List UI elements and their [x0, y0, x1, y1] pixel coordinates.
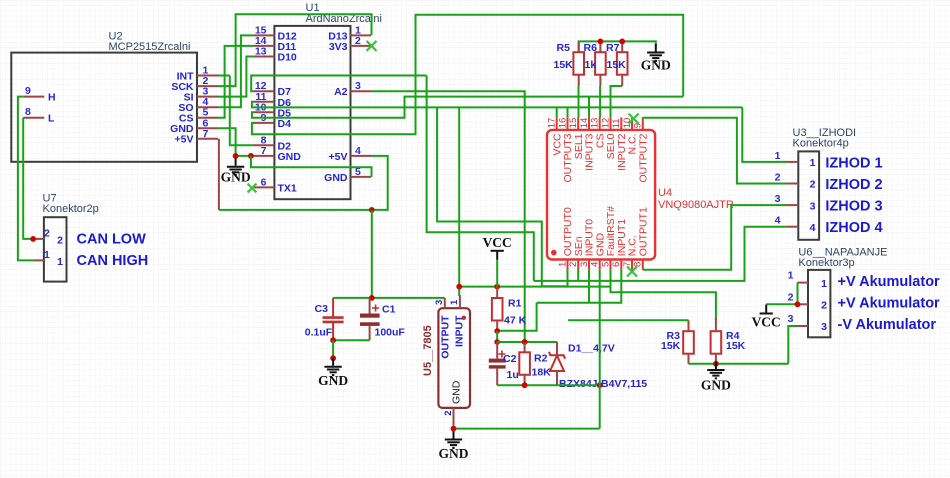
- junction C3 bottom: [330, 337, 336, 343]
- U1 pin 7 GND: [254, 155, 274, 157]
- svg-text:3: 3: [788, 313, 794, 325]
- wire net INT vertical to D2: [230, 76, 254, 146]
- svg-text:R7: R7: [606, 42, 620, 54]
- U1 pin 4 +5V: [351, 155, 372, 157]
- IC U1 ArdNanoZrcalni box: [274, 26, 350, 199]
- svg-text:16: 16: [557, 118, 568, 129]
- svg-text:4: 4: [810, 222, 816, 234]
- svg-text:CAN LOW: CAN LOW: [77, 232, 147, 248]
- U4 top pin 12 SEL0: [610, 117, 612, 129]
- svg-text:+V Akumulator: +V Akumulator: [838, 274, 941, 290]
- svg-text:12: 12: [600, 118, 611, 129]
- wire net C3 down to gnd: [332, 340, 334, 358]
- junction VIN at U5 input: [456, 284, 462, 290]
- svg-text:15K: 15K: [661, 340, 681, 352]
- U4 top pin 17 VCC: [556, 117, 558, 129]
- svg-text:17: 17: [547, 118, 558, 129]
- svg-text:47 K: 47 K: [504, 315, 527, 327]
- svg-text:13: 13: [590, 118, 601, 129]
- junction GND branch: [248, 153, 254, 159]
- U2 pin 3 SI: [197, 96, 218, 98]
- svg-text:2: 2: [568, 262, 579, 267]
- wire net CANL from U2.L to U7.2: [23, 118, 34, 239]
- wire net R tops to GND: [579, 41, 656, 52]
- IC U5 7805 regulator box: [438, 308, 470, 408]
- resistor R1 47K: [496, 287, 498, 298]
- wire R5 bottom lead: [578, 75, 580, 86]
- U1 pin 5 GND: [351, 176, 372, 178]
- wire net OUTPUT2 to U3 pin1 upper: [643, 117, 787, 183]
- IC U2 MCP2515Zrcalni box: [11, 53, 197, 162]
- svg-text:14: 14: [579, 118, 590, 129]
- wire net +5V down to C1 row: [371, 210, 373, 298]
- svg-text:CAN HIGH: CAN HIGH: [77, 253, 149, 269]
- svg-text:BZX84J-B4V7,115: BZX84J-B4V7,115: [559, 378, 647, 390]
- svg-text:-V Akumulator: -V Akumulator: [838, 317, 937, 333]
- svg-text:10: 10: [622, 118, 633, 129]
- connector U3 Konektor4p box: [798, 151, 819, 239]
- wire net R1 bottom to divider node: [496, 331, 498, 342]
- wire net +5V loop from U1 pin4: [371, 156, 388, 210]
- svg-text:GND: GND: [278, 151, 302, 163]
- wire net VIN stub to U5 input: [458, 287, 460, 296]
- wire net row107 branch V459 to VCC rail: [458, 107, 460, 286]
- resistor R3 15K: [683, 331, 694, 354]
- svg-text:2: 2: [355, 35, 361, 47]
- svg-text:6: 6: [611, 262, 622, 267]
- U1 pin 15 D12: [254, 34, 274, 36]
- svg-text:15K: 15K: [607, 59, 627, 71]
- svg-text:U4: U4: [658, 187, 672, 199]
- wire net VCC symbol stem: [496, 260, 498, 287]
- svg-text:2: 2: [788, 291, 794, 303]
- no-connect X on U1 TX1: [248, 184, 257, 193]
- wire net GND stub U5: [453, 425, 455, 429]
- resistor R4 15K: [711, 331, 722, 354]
- U1 pin 12 D7: [254, 90, 274, 92]
- wire net C3 C1 bottoms: [333, 339, 370, 341]
- ground symbol bottom center: [445, 431, 462, 448]
- U3 pin 3: [787, 204, 799, 206]
- U2 pin 4 SO: [197, 106, 218, 108]
- svg-text:R6: R6: [584, 42, 598, 54]
- connector U7 Konektor2p box: [44, 217, 67, 281]
- svg-text:1k: 1k: [585, 59, 597, 71]
- svg-text:1: 1: [557, 262, 568, 267]
- svg-text:GND: GND: [439, 446, 469, 461]
- svg-text:2: 2: [821, 300, 827, 312]
- U4 bottom pin 1 OUTPUT0: [567, 260, 569, 270]
- svg-text:GND: GND: [221, 170, 251, 185]
- IC U4 VNQ9080AJTR box: [547, 130, 655, 260]
- U2 pin 6 GND: [197, 127, 218, 129]
- no-connect X on U1 3V3: [367, 41, 377, 51]
- wire R4 bottom lead: [715, 354, 717, 364]
- wire net GND branch through box to U1 pin5 GND: [251, 156, 372, 177]
- ground symbol near R5R6R7: [647, 44, 664, 61]
- junction VCC at R1: [494, 284, 500, 290]
- U2 pin 7 +5V: [197, 138, 218, 140]
- svg-text:3: 3: [821, 321, 827, 333]
- U4 bottom pin 6 INPUT1: [620, 260, 622, 270]
- svg-text:OUTPUT2: OUTPUT2: [637, 133, 649, 182]
- wire net U6 pin1 branch: [797, 283, 799, 305]
- svg-text:C2: C2: [503, 353, 517, 365]
- svg-text:2: 2: [775, 172, 781, 184]
- U4 top pin 14 INPUT3: [588, 117, 590, 129]
- U4 bottom pin 5 FaultRST#: [610, 260, 612, 270]
- svg-text:7: 7: [261, 145, 267, 157]
- svg-text:4: 4: [590, 262, 601, 267]
- svg-text:OUTPUT: OUTPUT: [439, 315, 451, 359]
- svg-text:OUTPUT1: OUTPUT1: [637, 207, 649, 256]
- wire net GND bottom rail: [454, 428, 600, 430]
- resistor R1 body: [492, 298, 503, 321]
- wire net D4 long loop over top rail: [252, 15, 683, 135]
- junction GND at U5 pin2: [451, 426, 457, 432]
- svg-text:3: 3: [355, 80, 361, 92]
- wire net CANH from U2.H to U7.1: [18, 97, 35, 261]
- wire net R6 to U4 pin13: [599, 86, 601, 117]
- svg-text:1: 1: [44, 249, 50, 261]
- no-connect X on U4 pin7: [627, 267, 637, 277]
- wire net row107 end down to U3 pin1: [742, 107, 786, 161]
- svg-text:5: 5: [600, 262, 611, 267]
- wire net D5 jog: [252, 97, 683, 118]
- wire net -V to GND rail: [788, 326, 797, 364]
- wire net H2 branch down V426: [427, 76, 534, 281]
- wire net FaultRST to R4: [611, 270, 716, 320]
- U1 pin 11 D6: [254, 101, 274, 103]
- wire net D7 jog up and across to V426: [251, 76, 426, 92]
- ground symbol near C3: [324, 358, 341, 375]
- svg-text:GND: GND: [641, 58, 671, 73]
- U4 pin1 marker dot: [551, 250, 557, 256]
- wire R7 bottom lead: [621, 75, 623, 86]
- wire net +5V red drop from U2 pin7: [218, 139, 220, 210]
- wire net row107 branch V437 to SEn region: [437, 107, 567, 286]
- wire net GND from U2.GND down: [218, 128, 236, 156]
- U4 bottom pin 4 GND: [599, 260, 601, 270]
- U4 top pin 13 CS: [599, 117, 601, 129]
- U3 pin 4: [787, 226, 799, 228]
- wire R6 top lead: [599, 41, 601, 52]
- wire net OUTPUT1 to U3 pin3: [643, 205, 787, 270]
- U3 pin 2: [787, 183, 799, 185]
- U3 pin 1: [787, 161, 799, 163]
- svg-text:8: 8: [25, 106, 31, 118]
- svg-text:IZHOD 4: IZHOD 4: [825, 220, 882, 236]
- ground symbol near R3R4: [707, 362, 724, 379]
- svg-text:3V3: 3V3: [329, 41, 348, 53]
- U1 pin 2 3V3: [351, 45, 372, 47]
- wire net SCK from U2.SCK up over to U1.D13: [218, 14, 372, 86]
- junction R1 bottom row330: [494, 328, 500, 334]
- U5 pin1 marker dot: [462, 316, 466, 320]
- svg-text:3: 3: [775, 193, 781, 205]
- svg-text:7: 7: [203, 128, 209, 140]
- wire R5 top lead: [578, 41, 580, 52]
- svg-text:C1: C1: [382, 304, 396, 316]
- U2 pin 1 INT: [197, 75, 218, 77]
- U1 pin 14 D11: [254, 45, 274, 47]
- junction R2 top: [522, 339, 528, 345]
- U1 pin 3 A2: [351, 90, 372, 92]
- wire R6 bottom lead: [599, 75, 601, 86]
- U7 pin 1: [35, 259, 44, 261]
- U4 top pin 15 SEL1: [577, 117, 579, 129]
- svg-text:MCP2515Zrcalni: MCP2515Zrcalni: [109, 41, 191, 53]
- wire net SEn row to U3 pin4: [534, 227, 787, 281]
- svg-text:2: 2: [44, 228, 50, 240]
- svg-text:D1__4,7V: D1__4,7V: [568, 343, 615, 355]
- power symbol VCC above R1: [491, 251, 504, 260]
- svg-text:R2: R2: [534, 353, 548, 365]
- wire net VCC rail: [459, 286, 610, 288]
- wire net SI from U2.SI to U1.D10: [218, 57, 254, 97]
- wire R4 top lead: [715, 318, 717, 331]
- wire net GND row R3R4 to U6: [689, 363, 789, 365]
- junction at gnd stem C3: [330, 355, 336, 361]
- svg-text:R1: R1: [508, 298, 522, 310]
- svg-text:L: L: [48, 113, 55, 125]
- resistor R5 15K: [573, 52, 584, 74]
- svg-text:+5V: +5V: [329, 151, 348, 163]
- svg-text:1: 1: [449, 299, 460, 305]
- junction R2 bottom: [522, 382, 528, 388]
- svg-text:Konektor2p: Konektor2p: [43, 203, 99, 215]
- power symbol VCC at U6: [760, 305, 773, 314]
- U1 pin 6 TX1: [254, 186, 274, 188]
- wire net R7 to U4 pin12: [611, 86, 623, 117]
- wire net row107 stub to U4 pin17: [556, 107, 558, 117]
- U4 bottom pin 3 INPUT0: [588, 260, 590, 270]
- wire net D6 jog to row107: [252, 102, 742, 108]
- junction divider node: [494, 339, 500, 345]
- wire net CS from U2.CS to U1.D11: [218, 46, 254, 118]
- svg-text:2: 2: [810, 179, 816, 191]
- svg-text:D4: D4: [278, 118, 292, 130]
- capacitor C3 0.1uF: [332, 298, 334, 317]
- wire net R3 top row: [568, 319, 688, 321]
- svg-text:U5__7805: U5__7805: [422, 325, 434, 376]
- U4 bottom pin 2 SEn: [577, 260, 579, 270]
- U1 pin 1 D13: [351, 34, 372, 36]
- U1 pin 9 D4: [254, 122, 274, 124]
- R2 bottom lead: [524, 374, 526, 386]
- svg-text:VNQ9080AJTR: VNQ9080AJTR: [658, 199, 734, 211]
- svg-text:GND: GND: [701, 378, 731, 393]
- svg-text:R5: R5: [557, 42, 571, 54]
- U5 pin 3 OUTPUT: [444, 298, 446, 308]
- svg-text:18K: 18K: [532, 367, 552, 379]
- svg-text:IZHOD 3: IZHOD 3: [825, 199, 882, 215]
- wire net SO from U2.SO to U1.D12: [218, 35, 254, 107]
- wire net D5 branch down to U4 pin14: [588, 97, 590, 118]
- svg-text:Konektor4p: Konektor4p: [793, 137, 849, 149]
- U2 pin 8 L: [23, 117, 44, 119]
- svg-text:15: 15: [568, 118, 579, 129]
- U6 pin 1: [798, 282, 809, 284]
- U1 pin 13 D10: [254, 56, 274, 58]
- svg-text:+V Akumulator: +V Akumulator: [838, 296, 941, 312]
- U2 pin 9 H: [23, 96, 44, 98]
- svg-text:1: 1: [57, 256, 63, 268]
- wire net INT from U2.INT: [218, 75, 230, 77]
- svg-text:1u: 1u: [507, 369, 519, 381]
- svg-text:C3: C3: [315, 303, 329, 315]
- svg-text:8: 8: [633, 262, 644, 267]
- capacitor C2 1u polarized: [496, 342, 498, 359]
- resistor R2 body: [519, 352, 530, 375]
- wire R3 bottom lead: [688, 354, 690, 364]
- U1 pin 10 D5: [254, 111, 274, 113]
- U4 top pin 9 OUTPUT2: [642, 117, 644, 129]
- junction GND at symbol: [233, 153, 239, 159]
- junction R7 top: [619, 39, 625, 45]
- svg-text:11: 11: [611, 118, 622, 128]
- svg-text:Konektor3p: Konektor3p: [798, 257, 854, 269]
- svg-text:3: 3: [810, 200, 816, 212]
- svg-text:4: 4: [355, 145, 361, 157]
- ground symbol near U2: [227, 158, 244, 175]
- wire net R3 top lead: [688, 320, 690, 331]
- junction C1 top: [369, 295, 375, 301]
- svg-text:3: 3: [434, 300, 445, 305]
- junction GND at R4: [713, 361, 719, 367]
- svg-text:A2: A2: [334, 86, 348, 98]
- svg-text:IZHOD 1: IZHOD 1: [825, 155, 882, 171]
- wire net divider bottom row: [497, 384, 600, 386]
- wire net U4 GND pin4 long drop: [599, 270, 601, 429]
- svg-text:2: 2: [443, 411, 454, 416]
- U4 top pin 16 OUTPUT3: [567, 117, 569, 129]
- wire net A2 to divider: [371, 91, 525, 342]
- svg-text:VCC: VCC: [483, 235, 512, 250]
- svg-text:2: 2: [57, 234, 63, 246]
- resistor R7 15K: [617, 52, 628, 74]
- R1 bottom lead: [496, 321, 498, 332]
- svg-text:GND: GND: [324, 172, 348, 184]
- svg-text:6: 6: [261, 176, 267, 188]
- svg-text:9: 9: [25, 85, 31, 97]
- wire net VIN row C3 C1 U5: [333, 297, 445, 299]
- wire net +5V horizontal to junction: [219, 209, 372, 211]
- svg-text:3: 3: [579, 262, 590, 267]
- svg-text:IZHOD 2: IZHOD 2: [825, 177, 882, 193]
- junction R6 top: [598, 39, 604, 45]
- junction CANL at U7 pin2: [30, 236, 36, 242]
- wire net SEn stub up to U4 pin2: [577, 270, 579, 281]
- svg-text:1: 1: [810, 157, 816, 169]
- svg-text:VCC: VCC: [752, 315, 781, 330]
- wire net GND row to U1.GND: [236, 155, 254, 157]
- junction bottom row at GND drop: [597, 382, 603, 388]
- U2 pin 2 SCK: [197, 85, 218, 87]
- junction U6 pin2: [795, 301, 801, 307]
- svg-text:4: 4: [775, 215, 781, 227]
- svg-text:D10: D10: [278, 52, 297, 64]
- connector U6 Konektor3p box: [808, 270, 830, 337]
- U4 top pin 11 INPUT2: [620, 117, 622, 129]
- U2 pin 5 CS: [197, 117, 218, 119]
- zener diode D1 BZX84: [556, 342, 558, 356]
- wire net VCC to U6 pin2 and pin1: [766, 303, 797, 305]
- svg-text:1: 1: [775, 150, 781, 162]
- svg-text:TX1: TX1: [278, 182, 297, 194]
- wire net INPUT0 stub: [588, 270, 590, 303]
- svg-text:GND: GND: [451, 380, 463, 404]
- resistor R6 1k: [595, 52, 606, 74]
- U6 pin 3: [798, 325, 809, 327]
- U5 pin 2 GND: [453, 408, 455, 426]
- wire R7 top lead: [621, 41, 623, 52]
- capacitor C1 100uF polarized: [369, 298, 371, 314]
- U6 pin 2: [798, 303, 809, 305]
- resistor R2 18K: [524, 342, 526, 352]
- svg-text:13: 13: [255, 46, 267, 58]
- U1 pin 8 D2: [254, 144, 274, 146]
- svg-text:15K: 15K: [554, 59, 574, 71]
- svg-text:100uF: 100uF: [375, 327, 406, 339]
- U4 bottom pin 7 N.C.: [631, 260, 633, 270]
- U4 top pin 10 N.C.: [631, 117, 633, 129]
- U5 pin 1 INPUT: [459, 295, 461, 308]
- wire net INPUT0 INPUT1 row: [537, 270, 622, 303]
- no-connect X on U4 pin10: [629, 114, 639, 124]
- svg-text:1: 1: [788, 270, 794, 282]
- svg-text:15K: 15K: [726, 340, 746, 352]
- wire net divider row: [497, 341, 557, 343]
- U4 bottom pin 8 OUTPUT1: [642, 260, 644, 270]
- wire net row107 stub to U4 pin16: [567, 107, 569, 117]
- svg-text:1: 1: [821, 278, 827, 290]
- svg-text:+5V: +5V: [175, 134, 194, 146]
- U7 pin 2: [35, 238, 44, 240]
- svg-text:H: H: [48, 91, 56, 103]
- svg-text:GND: GND: [318, 373, 348, 388]
- wire net row302 down to divider: [497, 303, 536, 331]
- svg-text:0.1uF: 0.1uF: [305, 327, 333, 339]
- junction +5V: [369, 207, 375, 213]
- wire net R5 to U4 pin15: [578, 86, 580, 117]
